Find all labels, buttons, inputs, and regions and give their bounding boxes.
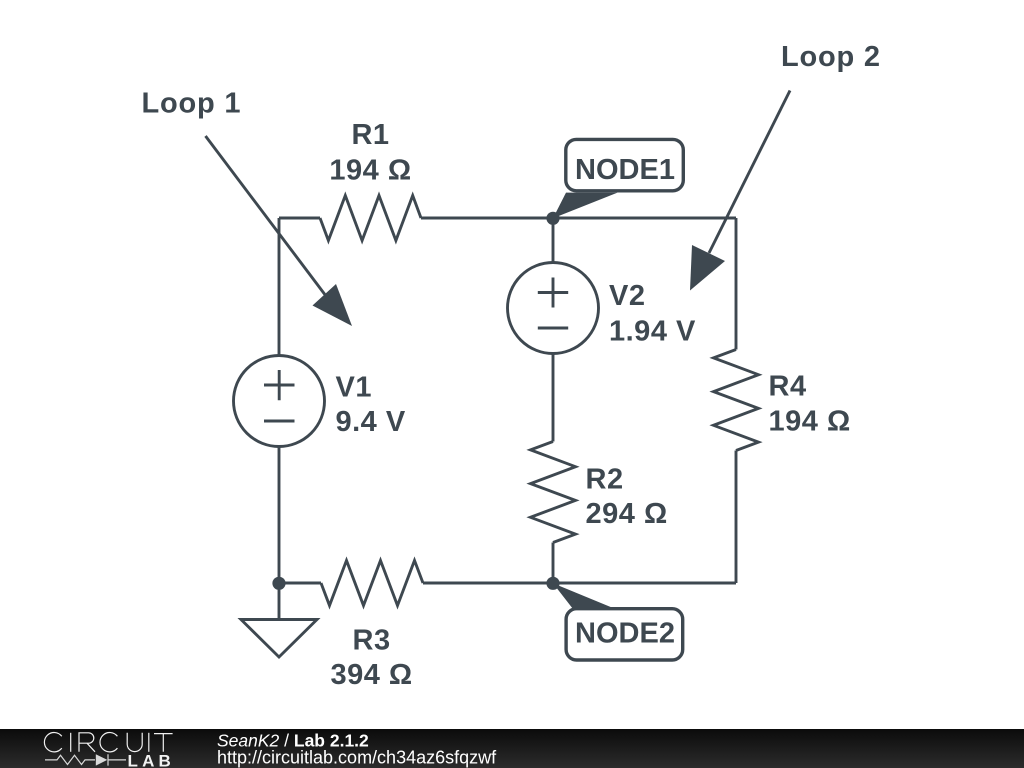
logo CIRCUIT wordmark [44, 732, 172, 751]
node junction dot left (ground node) [272, 577, 285, 590]
node NODE2 junction dot [546, 577, 559, 590]
resistor R1 [320, 196, 421, 241]
svg-text:NODE2: NODE2 [575, 618, 675, 650]
ground [241, 620, 317, 658]
svg-text:http://circuitlab.com/ch34az6s: http://circuitlab.com/ch34az6sfqzwf [217, 748, 497, 768]
wire middle branch top (NODE1 to V2) [552, 218, 555, 263]
voltage source V2 [508, 263, 599, 354]
svg-text:1.94 V: 1.94 V [609, 316, 696, 348]
svg-text:Loop 2: Loop 2 [781, 41, 881, 73]
node NODE2 label box [566, 609, 683, 660]
node NODE1 junction dot [546, 212, 559, 225]
wire middle branch (V2 to R2) [552, 354, 555, 442]
svg-text:9.4 V: 9.4 V [336, 406, 406, 438]
label R2 value [586, 463, 668, 530]
svg-text:Loop 1: Loop 1 [142, 88, 242, 120]
wire right branch upper [735, 218, 738, 350]
voltage source V1 [234, 356, 325, 447]
label R1 value [329, 119, 411, 187]
svg-text:R2: R2 [586, 463, 624, 495]
logo resistor-diode underline [45, 754, 126, 765]
svg-text:V2: V2 [609, 280, 645, 312]
annotation Loop 2 arrow line [709, 91, 790, 254]
svg-text:LAB: LAB [128, 751, 176, 768]
svg-text:R4: R4 [769, 371, 807, 403]
wire left branch lower [278, 447, 281, 584]
wire middle branch bottom (R2 to NODE2) [552, 543, 555, 584]
annotation Loop 1 arrowhead [313, 284, 353, 326]
label V1 value [336, 372, 406, 439]
wire ground stub [278, 583, 281, 620]
label R4 value [769, 371, 851, 438]
node NODE1 label pointer [553, 193, 618, 219]
label R3 value [330, 625, 412, 692]
annotation Loop 2 arrowhead [690, 245, 725, 291]
wire top-left horizontal (V1 to R1) [279, 217, 320, 220]
svg-text:194 Ω: 194 Ω [329, 155, 411, 187]
wire bottom horizontal (R3 to right branch through NODE2) [423, 582, 736, 585]
svg-text:V1: V1 [336, 372, 372, 404]
svg-text:294 Ω: 294 Ω [586, 498, 668, 530]
logo diode triangle [96, 754, 108, 765]
svg-text:194 Ω: 194 Ω [769, 406, 851, 438]
resistor R3 [321, 561, 423, 606]
wire top horizontal (R1 to right branch through NODE1) [421, 217, 736, 220]
label V2 value [609, 280, 696, 348]
svg-text:R1: R1 [351, 119, 389, 151]
svg-text:NODE1: NODE1 [575, 154, 675, 186]
svg-text:394 Ω: 394 Ω [330, 659, 412, 691]
svg-text:R3: R3 [353, 625, 391, 657]
wire bottom-left (node to R3) [279, 582, 321, 585]
wire left branch upper [278, 218, 281, 356]
wire right branch lower [735, 451, 738, 584]
resistor R2 [531, 442, 576, 543]
node NODE1 label box [566, 139, 684, 190]
annotation Loop 1 arrow line [206, 136, 327, 296]
resistor R4 [714, 350, 759, 451]
node NODE2 label pointer [553, 583, 616, 609]
